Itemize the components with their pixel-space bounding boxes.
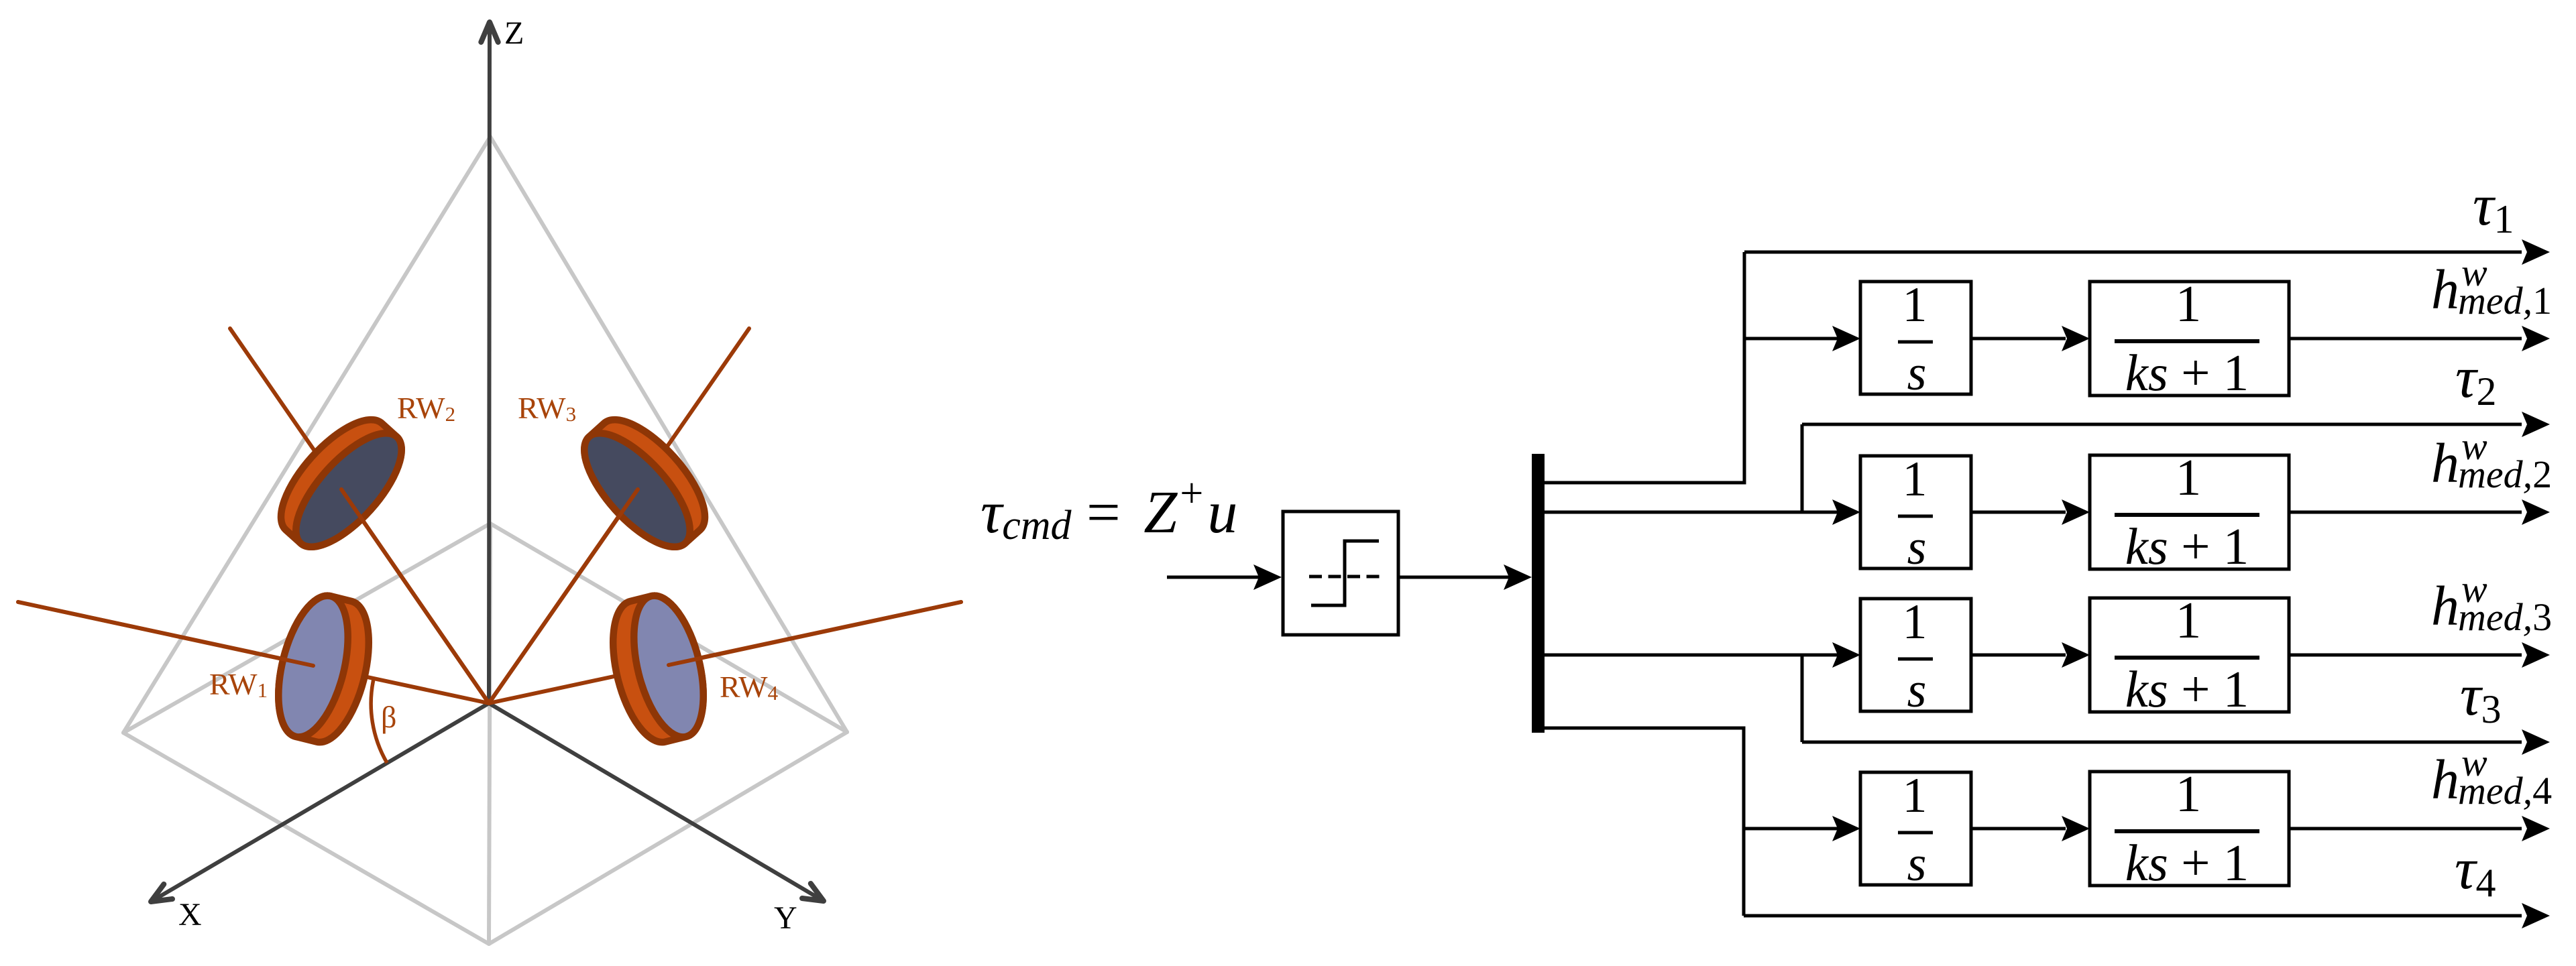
svg-text:s: s [1907,346,1927,401]
wheel axis RW1 stub over face [18,602,313,666]
wire bus to riser row4 [1545,728,1744,916]
svg-text:ks + 1: ks + 1 [2125,660,2249,718]
svg-text:med,2: med,2 [2458,452,2552,496]
arrowhead h1 [2522,326,2550,351]
wheel axis RW3 stub over face [489,489,638,703]
wire integrator to filter row4 [1971,827,2066,831]
pyramid base edge left-front [123,733,489,944]
wire tau3 output [1802,741,2522,744]
filter block 1/(ks+1) row1 [2090,282,2289,396]
wire bus to integrator row2 [1545,511,1838,514]
Z axis arrowhead [481,22,498,42]
saturation symbol dashed level line [1309,575,1380,579]
wire input to saturation [1167,576,1261,579]
pyramid base edge back-right [490,524,847,732]
svg-text:h: h [2431,432,2459,495]
svg-text:ks + 1: ks + 1 [2125,834,2249,892]
wire integrator to filter row2 [1971,511,2066,514]
pyramid base edge left-back [123,524,490,733]
svg-text:med,1: med,1 [2458,279,2552,322]
svg-text:1: 1 [1903,452,1927,507]
X axis [151,703,489,902]
wire riser tau3 [1801,655,1804,742]
saturation symbol step [1311,541,1379,605]
row 4 [1832,765,2522,892]
svg-text:1: 1 [1903,595,1927,650]
wire h2 output [2289,511,2522,514]
arrowhead into filter row3 [2062,642,2090,668]
integrator block 1/s row4 [1860,772,1971,885]
svg-text:h: h [2431,575,2459,638]
wheel axis RW1 [18,602,489,703]
integrator block 1/s row2 [1860,456,1971,568]
row 3 [1832,591,2522,718]
wheel axis RW4 [489,602,961,703]
X axis arrowhead [151,884,172,902]
wire h3 output [2289,654,2522,657]
arrowhead h3 [2522,642,2550,668]
svg-text:Y: Y [774,900,797,936]
pyramid base diagonal back-front [489,524,490,944]
row 2 [1832,448,2522,575]
arrowhead h4 [2522,816,2550,841]
filter block 1/(ks+1) row2 [2090,455,2289,569]
arrowhead into filter row2 [2062,499,2090,525]
wire bus to riser row1 [1545,252,1744,483]
wire saturation to bus [1398,576,1512,579]
wire integrator to filter row3 [1971,654,2066,657]
arrowhead into saturation [1253,564,1282,590]
wire branch to integrator row1 [1744,337,1838,341]
filter block 1/(ks+1) row3 [2090,598,2289,712]
filter block 1/(ks+1) row4 [2090,772,2289,886]
pyramid edge apex-left [123,137,490,733]
arrowhead into integrator row1 [1832,326,1860,351]
svg-text:s: s [1907,663,1927,718]
pyramid base edge front-right [489,732,847,944]
arrowhead tau3 [2522,729,2550,755]
wire tau4 output [1744,914,2522,918]
wire riser tau2 [1801,424,1804,512]
svg-text:s: s [1907,837,1927,892]
wheel axis RW4 stub over face [669,602,961,665]
arrowhead tau1 [2522,239,2550,265]
svg-text:1: 1 [2176,591,2202,649]
svg-text:med,4: med,4 [2458,769,2552,812]
wheel axis RW2 [230,328,489,703]
angle beta arc [371,679,387,763]
svg-text:ks + 1: ks + 1 [2125,344,2249,402]
arrowhead h2 [2522,499,2550,525]
wire h4 output [2289,827,2522,831]
arrowhead into integrator row2 [1832,499,1860,525]
svg-text:1: 1 [2176,448,2202,506]
arrowhead into filter row1 [2062,326,2090,351]
arrowhead into integrator row4 [1832,816,1860,841]
arrowhead into filter row4 [2062,816,2090,841]
demux bus bar [1532,454,1545,733]
integrator block 1/s row1 [1860,282,1971,394]
svg-text:s: s [1907,520,1927,575]
svg-text:1: 1 [2176,765,2202,823]
Y axis arrowhead [802,884,824,901]
svg-text:h: h [2431,749,2459,811]
integrator block 1/s row3 [1860,599,1971,711]
arrowhead tau2 [2522,412,2550,437]
Y axis [489,703,824,901]
svg-text:1: 1 [2176,275,2202,333]
row 1 [1832,275,2522,402]
wire tau2 output [1802,423,2522,426]
svg-text:X: X [178,897,202,932]
reaction wheel RW3 disk [567,404,722,563]
wire integrator to filter row1 [1971,337,2066,341]
svg-text:Z: Z [504,15,524,51]
saturation block U1 [1283,511,1398,635]
wheel axis RW2 stub over face [341,489,489,703]
pyramid edge apex-right [490,137,847,732]
wire bus to integrator row3 [1545,654,1838,657]
arrowhead into bus [1504,564,1532,590]
arrowhead into integrator row3 [1832,642,1860,668]
svg-text:med,3: med,3 [2458,595,2552,639]
wire tau1 output [1744,251,2522,254]
reaction wheel RW2 disk [264,404,418,563]
svg-text:h: h [2431,259,2459,321]
wire branch to integrator row4 [1744,827,1838,831]
svg-text:1: 1 [1903,278,1927,333]
wheel axis RW3 [489,328,749,703]
svg-text:β: β [381,700,396,734]
wire h1 output [2289,337,2522,341]
reaction wheel RW1 disk [266,589,382,749]
reaction wheel RW4 disk [600,589,716,749]
Z axis [489,30,490,703]
svg-text:ks + 1: ks + 1 [2125,518,2249,575]
arrowhead tau4 [2522,903,2550,928]
svg-text:1: 1 [1903,768,1927,823]
